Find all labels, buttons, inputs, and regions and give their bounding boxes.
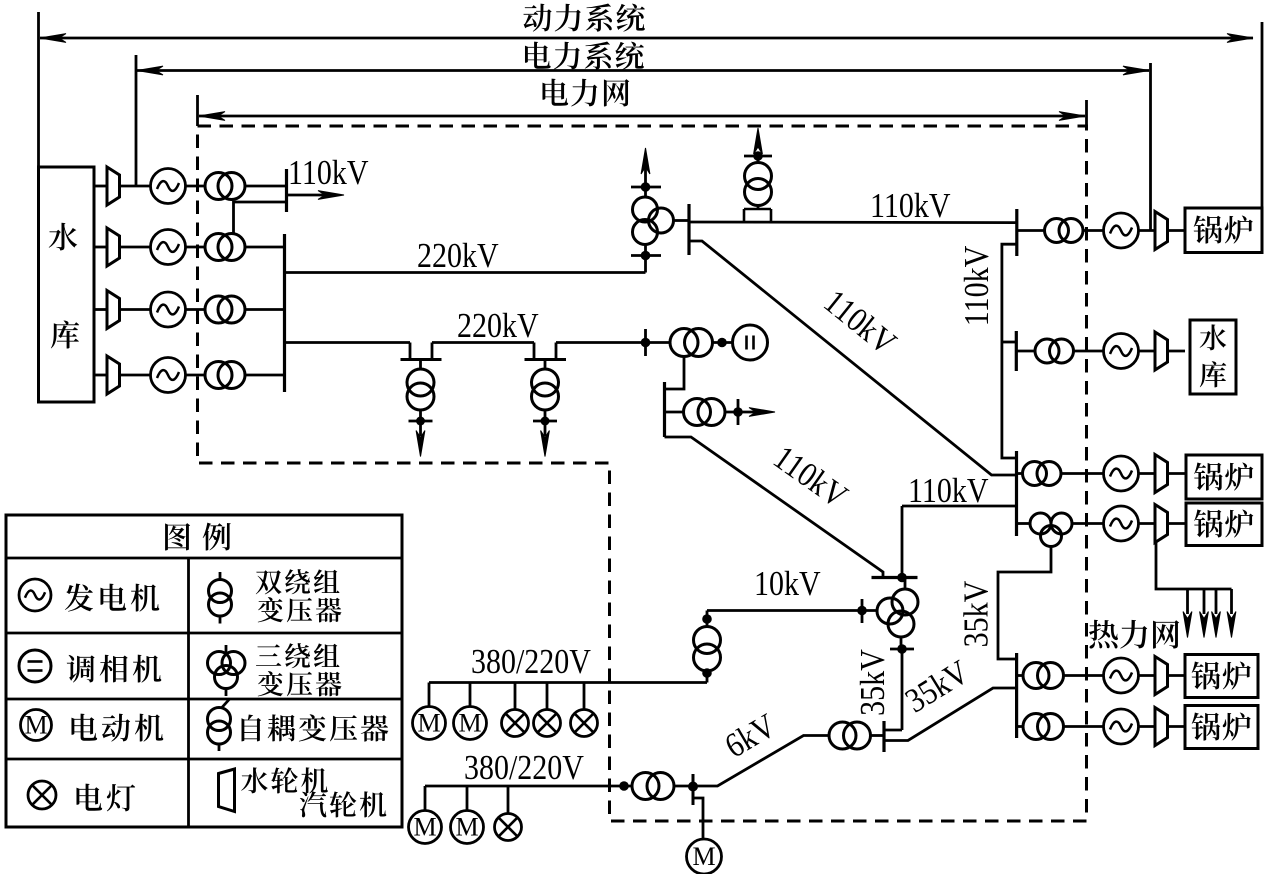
svg-text:M: M bbox=[692, 842, 715, 871]
svg-text:M: M bbox=[458, 709, 481, 738]
svg-text:380/220V: 380/220V bbox=[471, 642, 591, 680]
svg-text:110kV: 110kV bbox=[288, 153, 369, 191]
svg-text:M: M bbox=[24, 711, 47, 740]
svg-text:110kV: 110kV bbox=[870, 186, 951, 224]
svg-text:220kV: 220kV bbox=[417, 236, 499, 274]
svg-text:10kV: 10kV bbox=[754, 564, 821, 602]
svg-text:M: M bbox=[417, 709, 440, 738]
svg-text:110kV: 110kV bbox=[908, 471, 989, 509]
svg-text:380/220V: 380/220V bbox=[464, 748, 584, 786]
svg-text:35kV: 35kV bbox=[853, 649, 891, 716]
svg-text:M: M bbox=[455, 813, 478, 842]
svg-text:M: M bbox=[413, 813, 436, 842]
svg-text:35kV: 35kV bbox=[957, 581, 995, 648]
svg-text:110kV: 110kV bbox=[957, 246, 995, 327]
svg-text:220kV: 220kV bbox=[457, 306, 539, 344]
